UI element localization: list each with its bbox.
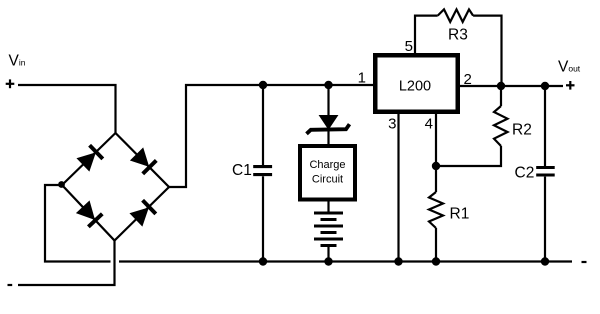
node: ground rail C1 junction: [259, 257, 267, 265]
wire: pin 2 to output + terminal: [459, 85, 563, 87]
svg-text:C1: C1: [232, 162, 252, 179]
regulator U1 L200 box: [375, 55, 458, 112]
node: ground rail R1 junction: [432, 257, 440, 265]
node: pin4/R2 junction: [432, 162, 440, 170]
node: ground rail pin 3 junction: [394, 257, 402, 265]
diode D1 (left vertex to top vertex): [77, 145, 103, 171]
resistor R3: [438, 9, 473, 22]
input - terminal: [8, 284, 13, 286]
capacitor C1: [253, 85, 272, 262]
input + terminal: [6, 79, 15, 88]
node: bridge left vertex junction: [58, 181, 65, 188]
svg-text:R1: R1: [450, 206, 470, 223]
wire: pin 4 down through junction: [435, 113, 437, 192]
diode D3 (left vertex to bottom vertex): [76, 201, 102, 227]
wire: pin 3 to ground rail: [397, 113, 399, 262]
node: top rail zener junction: [324, 81, 332, 89]
diode D2 (top vertex to right vertex): [130, 148, 156, 174]
resistor R1: [429, 192, 443, 228]
node: output rail C2 junction: [541, 82, 549, 90]
svg-text:C2: C2: [515, 164, 535, 181]
wire: bridge bottom vertex to input - terminal: [18, 241, 115, 286]
output - terminal: [582, 261, 587, 263]
wire: R3 to output node: [473, 16, 501, 86]
node: top rail C1 junction: [259, 81, 267, 89]
svg-text:1: 1: [358, 70, 366, 87]
node: ground rail battery junction: [324, 257, 332, 265]
wire: bridge left vertex to ground rail: [45, 185, 111, 262]
wire: bridge right vertex to top rail: [169, 85, 374, 187]
diode D4 (bottom vertex to right vertex): [130, 200, 156, 226]
svg-text:3: 3: [388, 116, 396, 133]
wire: pin 5 to R3: [415, 16, 438, 54]
wire: Vin+ to bridge top vertex: [18, 85, 116, 133]
svg-text:R2: R2: [512, 122, 532, 139]
capacitor C2: [536, 86, 555, 262]
output + terminal: [566, 81, 575, 90]
wire: ground rail: [119, 260, 572, 262]
svg-text:5: 5: [405, 38, 413, 55]
svg-text:R3: R3: [448, 27, 468, 44]
resistor R2: [436, 86, 508, 166]
node: output rail R3/R2 junction: [497, 82, 505, 90]
zener diode: [307, 85, 350, 145]
wire: R1 to ground rail: [435, 228, 437, 262]
svg-text:Circuit: Circuit: [312, 174, 343, 186]
svg-text:L200: L200: [399, 79, 431, 95]
battery: [314, 202, 343, 262]
svg-text:Charge: Charge: [309, 159, 345, 171]
svg-text:Vin: Vin: [9, 53, 26, 70]
svg-text:Vout: Vout: [558, 58, 581, 75]
charge circuit block: [300, 146, 355, 200]
svg-text:4: 4: [425, 116, 433, 133]
node: ground rail C2 junction: [541, 257, 549, 265]
bridge rectifier frame: [62, 133, 169, 241]
